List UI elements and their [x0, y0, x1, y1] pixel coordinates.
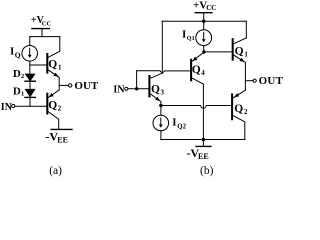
wire OUT to Q2 emitter: [58, 85, 60, 90]
-VEE supply symbol (b): [196, 140, 211, 147]
transistor Q1 (b) NPN: [233, 38, 247, 81]
svg-text:(a): (a): [49, 165, 62, 177]
svg-text:2: 2: [244, 108, 248, 116]
svg-text:Q2: Q2: [177, 123, 186, 130]
Q2 label (a): [48, 100, 61, 113]
wire right drop: [245, 21, 247, 38]
svg-text:2: 2: [58, 104, 62, 112]
node Y wires to Q4 base: [137, 71, 191, 73]
+VCC supply symbol (a): [32, 29, 49, 37]
svg-text:Q: Q: [15, 50, 21, 59]
IQ1 label: [182, 29, 195, 43]
transistor Q2 (b) PNP: [232, 90, 245, 139]
svg-text:+V: +V: [193, 0, 207, 12]
wire D1 to IN node: [29, 97, 31, 106]
diode D2: [25, 74, 35, 81]
Q4 label: [192, 64, 205, 77]
+VCC label (a): [31, 15, 52, 28]
svg-text:Q: Q: [48, 100, 57, 112]
wire node X to Q1 base: [204, 51, 232, 53]
svg-text:IN: IN: [1, 102, 13, 113]
node Z dot (Q3 emitter): [159, 104, 162, 107]
wire left drop: [161, 21, 163, 73]
svg-text:OUT: OUT: [259, 75, 283, 87]
diode D1: [25, 89, 35, 97]
svg-text:Q: Q: [235, 45, 244, 57]
svg-text:CC: CC: [206, 4, 216, 12]
svg-text:1: 1: [21, 90, 24, 97]
wire IQ to node A: [29, 61, 31, 74]
wire node Z to Q2 base with hop over Q4 collector: [161, 106, 231, 109]
svg-text:EE: EE: [198, 152, 209, 161]
svg-text:1: 1: [244, 51, 248, 59]
svg-text:(b): (b): [200, 165, 214, 177]
-VEE bar (a): [51, 128, 72, 130]
IN terminal (a): [12, 104, 15, 107]
svg-text:D: D: [13, 85, 21, 97]
IN node dot (b): [135, 87, 138, 90]
-VEE label (a): [45, 130, 68, 145]
IN terminal circle (b): [125, 87, 128, 90]
svg-text:Q: Q: [48, 59, 57, 71]
svg-text:D: D: [13, 68, 21, 80]
-VEE junction dot: [202, 138, 205, 141]
IQ2 label: [172, 117, 186, 131]
OUT label (b): [259, 75, 284, 87]
current source IQ: [22, 46, 38, 62]
svg-text:4: 4: [201, 69, 205, 77]
svg-text:2: 2: [21, 73, 24, 80]
IN label (a): [1, 102, 13, 113]
wire IN to Q2 base: [15, 105, 47, 107]
junction dot VCC: [202, 20, 205, 23]
wire VCC rail (a): [30, 36, 60, 38]
transistor Q3 NPN: [149, 73, 162, 105]
transistor Q2 (PNP): [47, 90, 59, 129]
+VCC label (b): [193, 0, 216, 12]
wire D2 to D1: [29, 81, 31, 89]
(b) caption: [200, 165, 214, 177]
svg-text:OUT: OUT: [74, 80, 99, 92]
D2 label: [13, 68, 24, 80]
svg-text:1: 1: [58, 63, 62, 71]
svg-text:CC: CC: [42, 21, 52, 28]
svg-text:I: I: [182, 29, 186, 41]
transistor Q1 (NPN): [47, 37, 60, 86]
bottom rail (b): [161, 139, 245, 141]
svg-text:Q: Q: [192, 64, 201, 76]
+VCC supply symbol (b): [195, 13, 212, 22]
IN riser wire: [136, 71, 138, 89]
wire OUT to Q2 emitter (b): [244, 81, 246, 91]
svg-text:Q: Q: [151, 84, 160, 96]
Q3 label: [151, 84, 165, 97]
IN wire (b): [128, 88, 149, 90]
transistor Q4 PNP: [191, 52, 204, 139]
wire rail to current source (a): [29, 37, 31, 46]
IQ label: [10, 46, 21, 60]
svg-text:3: 3: [161, 89, 165, 97]
wire node A to Q1 base: [30, 64, 47, 66]
svg-text:I: I: [172, 117, 176, 129]
OUT terminal (b): [245, 79, 256, 82]
current source IQ1: [196, 21, 212, 52]
D1 label: [13, 85, 24, 97]
IN label (b): [113, 84, 125, 95]
svg-text:IN: IN: [113, 84, 125, 95]
node X dot: [202, 50, 205, 53]
OUT terminal (a): [59, 84, 72, 87]
OUT label (a): [74, 80, 99, 92]
Q1 label (a): [48, 59, 62, 72]
wire top rail (b): [162, 20, 246, 22]
current source IQ2: [153, 106, 169, 140]
Q1 label (b): [235, 45, 249, 58]
-VEE label (b): [186, 146, 208, 161]
svg-text:Q1: Q1: [187, 35, 195, 42]
Q2 label (b): [234, 103, 248, 116]
(a) caption: [49, 165, 62, 177]
svg-text:I: I: [10, 46, 14, 58]
svg-text:Q: Q: [234, 103, 243, 115]
svg-text:EE: EE: [57, 135, 68, 144]
